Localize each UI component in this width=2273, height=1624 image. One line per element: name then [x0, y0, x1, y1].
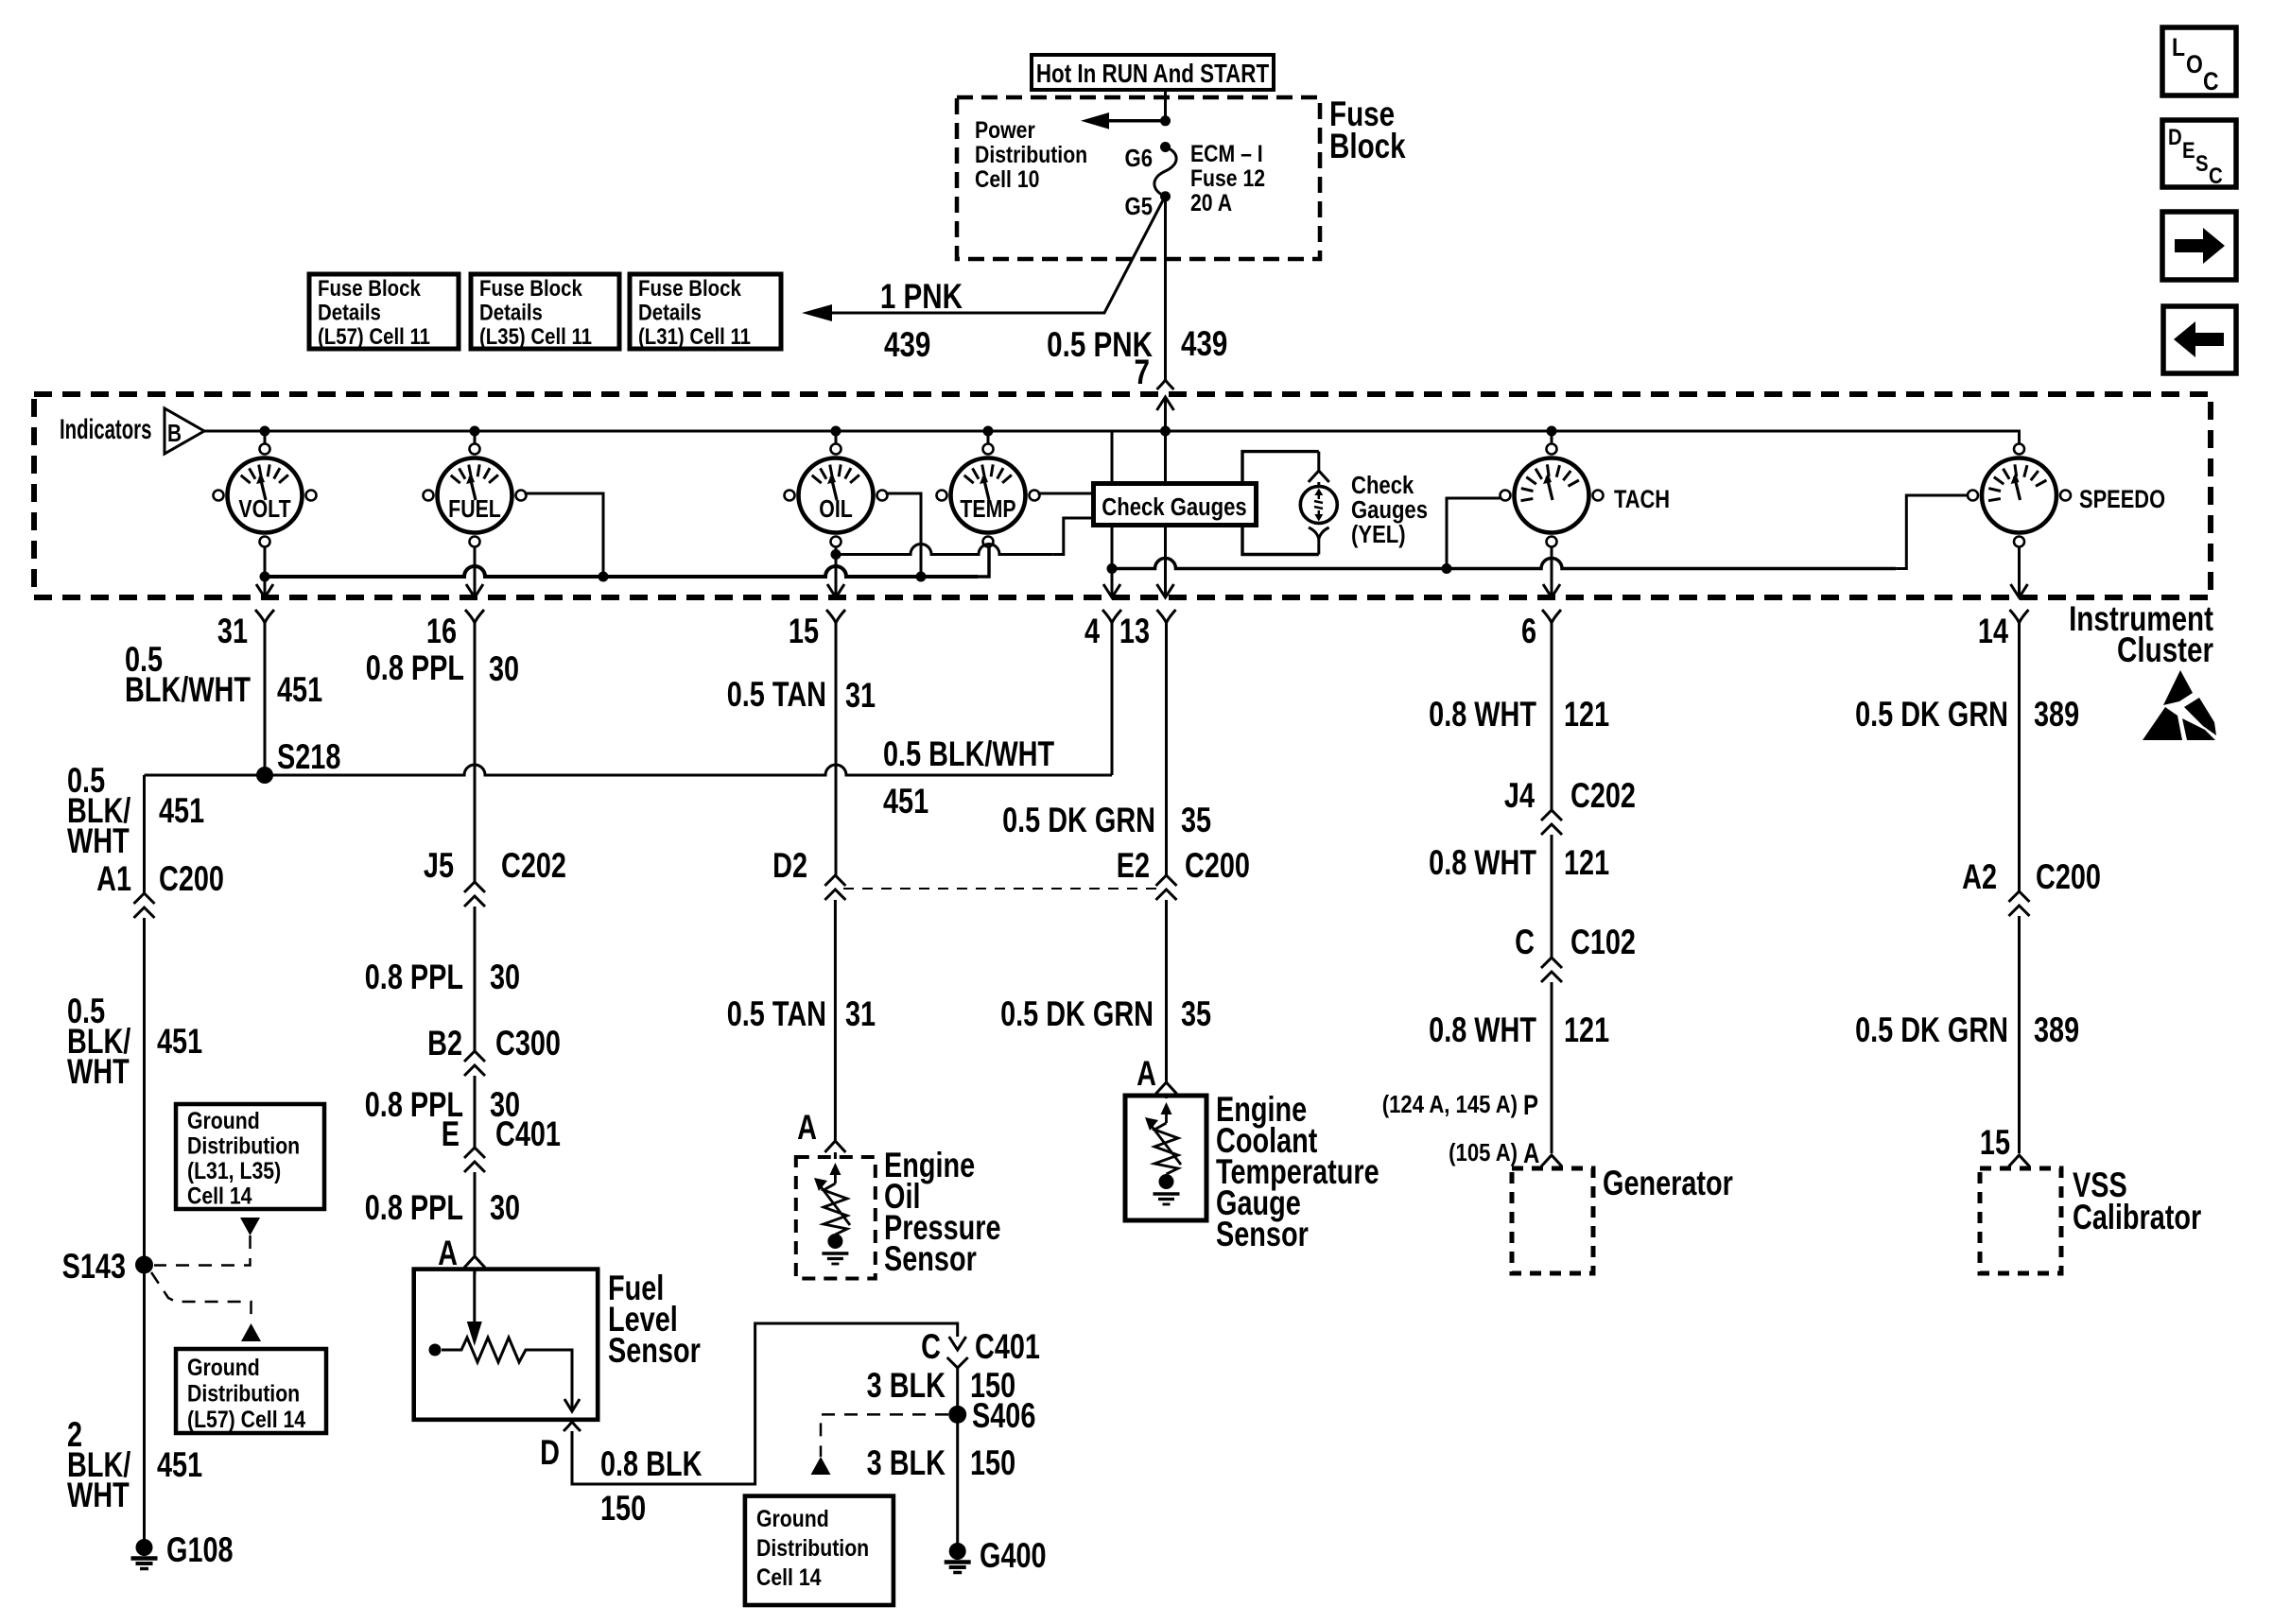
connector J5 C202 — [464, 882, 485, 907]
ect sensor symbol — [1165, 1112, 1168, 1123]
junction dot 439 feed — [1160, 426, 1171, 437]
svg-text:16: 16 — [426, 613, 457, 651]
svg-text:B2: B2 — [427, 1025, 462, 1063]
svg-text:451: 451 — [159, 792, 204, 831]
cluster top feed bus — [204, 431, 2020, 443]
svg-text:S406: S406 — [972, 1397, 1035, 1436]
gauge SPEEDO — [1982, 458, 2056, 533]
svg-text:C300: C300 — [495, 1025, 561, 1063]
junction dot wire4 bus — [1107, 563, 1118, 574]
svg-text:31: 31 — [845, 677, 876, 716]
svg-text:D: D — [2168, 124, 2182, 149]
connector A2 C200 — [2009, 891, 2030, 916]
svg-text:Check Gauges: Check Gauges — [1102, 493, 1246, 521]
svg-text:G6: G6 — [1125, 145, 1153, 172]
fuse block details (L57) box — [309, 274, 459, 349]
svg-text:451: 451 — [157, 1023, 202, 1062]
connector C C102 — [1541, 958, 1562, 982]
svg-text:0.5 BLK/WHT: 0.5 BLK/WHT — [883, 735, 1054, 774]
svg-text:C200: C200 — [2036, 858, 2101, 897]
svg-text:E: E — [2182, 137, 2195, 163]
S218 line 0.5 BLK/WHT 451 — [145, 765, 1113, 775]
svg-text:A: A — [1523, 1136, 1539, 1168]
ground distribution (L31,L35) box — [176, 1104, 324, 1209]
svg-text:A2: A2 — [1962, 858, 1997, 897]
svg-text:B: B — [167, 420, 182, 447]
splice S218 dot — [256, 767, 273, 784]
wire into oil sensor box — [834, 1152, 837, 1159]
svg-text:Distribution: Distribution — [187, 1380, 300, 1407]
fuse element ECM-I fuse 12 20A — [1154, 147, 1176, 197]
instrument cluster dashed box — [34, 394, 2211, 597]
svg-text:Fuse Block: Fuse Block — [638, 275, 741, 301]
connector A ect sensor — [1156, 1082, 1177, 1094]
terminal G5 dot — [1160, 191, 1171, 201]
svg-text:14: 14 — [1978, 613, 2009, 651]
svg-text:OIL: OIL — [819, 495, 853, 524]
wire volt bottom — [264, 546, 267, 577]
gauge OIL — [799, 458, 874, 533]
right bus — [1112, 559, 1896, 569]
svg-text:389: 389 — [2034, 696, 2079, 734]
svg-text:WHT: WHT — [67, 822, 130, 861]
lamp connector top — [1309, 471, 1329, 482]
svg-text:0.8 PPL: 0.8 PPL — [366, 649, 464, 688]
svg-text:451: 451 — [277, 671, 322, 710]
svg-text:15: 15 — [789, 613, 819, 651]
svg-text:389: 389 — [2034, 1011, 2079, 1050]
wire volt exit — [264, 577, 267, 596]
svg-text:TEMP: TEMP — [960, 495, 1015, 524]
svg-text:30: 30 — [489, 650, 519, 689]
svg-text:121: 121 — [1564, 1011, 1609, 1050]
svg-text:C401: C401 — [495, 1115, 561, 1154]
connector pin 14 below cluster — [2010, 610, 2029, 623]
svg-text:Power: Power — [975, 116, 1035, 143]
wire 3 BLK 150 lower — [956, 1414, 959, 1547]
svg-text:C: C — [2209, 163, 2223, 188]
wire oil right drop — [886, 493, 922, 577]
junction dot fuel top — [470, 426, 480, 437]
svg-text:35: 35 — [1181, 802, 1211, 840]
svg-text:Cell 10: Cell 10 — [975, 165, 1039, 192]
arrow from ground dist box down — [240, 1218, 260, 1235]
LOC icon box — [2162, 27, 2236, 95]
dashed connector line D2-E2 — [843, 888, 1157, 890]
svg-text:(L31) Cell 11: (L31) Cell 11 — [638, 323, 751, 349]
svg-text:Generator: Generator — [1603, 1165, 1733, 1203]
svg-text:31: 31 — [217, 613, 248, 651]
dashed link S143 to ground dist (L57) — [151, 1272, 252, 1323]
ground G108 — [136, 1539, 153, 1556]
svg-text:Indicators: Indicators — [60, 414, 151, 445]
connector pin 13 below cluster — [1157, 610, 1176, 623]
svg-text:BLK/WHT: BLK/WHT — [125, 671, 251, 710]
ESD sensitivity symbol — [2163, 670, 2193, 705]
svg-text:(L31, L35): (L31, L35) — [187, 1157, 281, 1183]
svg-text:Fuse Block: Fuse Block — [318, 275, 421, 301]
svg-text:0.8 WHT: 0.8 WHT — [1429, 696, 1536, 734]
svg-text:C200: C200 — [1185, 847, 1250, 886]
svg-text:G5: G5 — [1125, 193, 1153, 220]
gauge VOLT — [228, 458, 303, 533]
svg-text:C102: C102 — [1570, 924, 1636, 962]
svg-text:A1: A1 — [96, 860, 131, 899]
fuse block dashed box — [957, 97, 1320, 259]
svg-text:121: 121 — [1564, 844, 1609, 883]
wire 3 BLK 150 upper — [956, 1368, 959, 1414]
connector vss top — [2009, 1155, 2030, 1166]
wire 6 tach segment 1 — [1551, 635, 1553, 810]
connector pin 15 below cluster — [826, 610, 845, 623]
svg-text:Sensor: Sensor — [1216, 1216, 1309, 1254]
arrow up 439 into bus — [1157, 397, 1174, 410]
wire into fuel sensor box — [474, 1268, 477, 1274]
junction dot temp top — [983, 426, 994, 437]
svg-text:Block: Block — [1329, 128, 1406, 166]
svg-text:Ground: Ground — [756, 1505, 829, 1531]
svg-text:13: 13 — [1119, 613, 1150, 651]
svg-text:E2: E2 — [1117, 847, 1150, 886]
connector J4 C202 — [1541, 810, 1562, 835]
wire 0.5 PNK 439 vertical — [1164, 197, 1167, 380]
wire tach left elbow — [1447, 498, 1501, 569]
svg-text:C202: C202 — [1570, 777, 1636, 816]
ground distribution cell 14 box — [745, 1496, 894, 1605]
fuse block details (L35) box — [471, 274, 619, 349]
svg-text:P: P — [1523, 1088, 1538, 1120]
svg-text:WHT: WHT — [67, 1477, 130, 1515]
connector D2 C200 — [824, 875, 845, 900]
connector A1 C200 — [134, 893, 155, 918]
svg-text:0.8 PPL: 0.8 PPL — [365, 1189, 463, 1228]
svg-text:(124 A, 145 A): (124 A, 145 A) — [1382, 1091, 1518, 1118]
svg-text:Sensor: Sensor — [884, 1240, 977, 1279]
fuel sensor potentiometer — [442, 1338, 572, 1397]
svg-text:VOLT: VOLT — [238, 495, 291, 524]
wire 13 ect segment 1 — [1165, 635, 1168, 875]
svg-text:30: 30 — [490, 959, 520, 997]
svg-text:TACH: TACH — [1614, 486, 1670, 514]
left arrow icon box — [2163, 306, 2236, 373]
svg-text:E: E — [442, 1115, 460, 1154]
svg-text:C202: C202 — [501, 847, 566, 886]
svg-text:S143: S143 — [62, 1248, 126, 1287]
svg-text:FUEL: FUEL — [448, 495, 501, 524]
wire 451 to S143 — [143, 918, 146, 1265]
svg-text:Details: Details — [638, 300, 702, 325]
indicator bus triangle B — [165, 408, 204, 454]
svg-text:L: L — [2172, 33, 2185, 61]
svg-text:439: 439 — [1181, 325, 1227, 364]
svg-text:C: C — [921, 1328, 941, 1367]
dashed link S406 to ground dist cell 14 — [821, 1414, 948, 1457]
svg-text:D: D — [540, 1434, 560, 1473]
svg-text:0.5 DK GRN: 0.5 DK GRN — [1000, 995, 1154, 1034]
wire 14 speedo segment 1 — [2018, 635, 2021, 891]
arrow to power distribution cell 10 — [1098, 119, 1166, 123]
fuel level sensor box — [414, 1270, 599, 1420]
connector C C401 (down) — [947, 1337, 968, 1368]
connector Y at cluster entry — [1157, 380, 1174, 389]
wire temp to check gauges box — [1038, 492, 1094, 495]
lamp connector bottom — [1309, 527, 1329, 539]
left bus — [265, 566, 978, 577]
ground G400 — [949, 1543, 966, 1560]
svg-text:31: 31 — [845, 995, 876, 1034]
junction dot tach top — [1547, 426, 1557, 437]
engine oil pressure sensor dashed box — [796, 1157, 876, 1279]
svg-text:Fuse 12: Fuse 12 — [1190, 164, 1265, 191]
svg-text:4: 4 — [1084, 613, 1101, 651]
wire fuel right to bus — [525, 493, 604, 577]
svg-text:35: 35 — [1181, 995, 1211, 1034]
svg-text:J4: J4 — [1504, 777, 1536, 816]
svg-text:121: 121 — [1564, 696, 1609, 734]
wire 15 oil segment 1 — [835, 635, 838, 875]
gauge FUEL — [438, 458, 512, 533]
wire 13 through box — [1164, 431, 1167, 596]
svg-text:Details: Details — [318, 300, 381, 325]
svg-text:D2: D2 — [772, 847, 807, 886]
svg-text:20 A: 20 A — [1190, 189, 1232, 216]
svg-text:C: C — [2203, 67, 2219, 95]
fuel sensor wiper arrow — [473, 1270, 476, 1322]
wire into ect sensor box — [1165, 1094, 1168, 1098]
wire 16 fuel segment 4 — [474, 1172, 477, 1256]
svg-text:30: 30 — [490, 1189, 520, 1228]
svg-text:Cell 14: Cell 14 — [756, 1564, 822, 1590]
wire oil exit — [835, 555, 838, 597]
connector D below fuel sensor — [564, 1422, 581, 1431]
svg-text:Distribution: Distribution — [975, 141, 1087, 167]
connector generator top — [1541, 1155, 1562, 1166]
terminal G6 dot — [1160, 142, 1171, 152]
connector pin 6 below cluster — [1542, 610, 1561, 623]
svg-text:439: 439 — [884, 326, 930, 365]
fuse block details (L31) box — [630, 274, 781, 349]
wire from hot feed into fuse block — [1164, 90, 1167, 121]
svg-text:0.5 TAN: 0.5 TAN — [727, 995, 826, 1034]
svg-text:Details: Details — [479, 300, 543, 325]
svg-text:3 BLK: 3 BLK — [867, 1367, 946, 1406]
svg-text:(YEL): (YEL) — [1351, 521, 1406, 548]
wire 16 fuel segment 3 — [474, 1076, 477, 1148]
svg-text:Sensor: Sensor — [608, 1332, 701, 1371]
svg-text:0.5 DK GRN: 0.5 DK GRN — [1002, 802, 1155, 840]
svg-text:0.5 TAN: 0.5 TAN — [727, 676, 826, 715]
DESC icon box — [2162, 120, 2236, 187]
junction dot fuel-right bus — [599, 572, 609, 582]
svg-text:1 PNK: 1 PNK — [880, 278, 963, 317]
svg-text:3 BLK: 3 BLK — [867, 1444, 946, 1483]
svg-text:SPEEDO: SPEEDO — [2079, 486, 2165, 514]
connector A fuel sensor — [464, 1256, 485, 1268]
svg-text:(L57) Cell 14: (L57) Cell 14 — [187, 1406, 305, 1432]
svg-text:O: O — [2186, 50, 2203, 78]
svg-text:0.8 WHT: 0.8 WHT — [1429, 1011, 1536, 1050]
svg-text:C401: C401 — [975, 1328, 1040, 1367]
junction dot oil-right bus — [916, 572, 927, 582]
svg-text:15: 15 — [1980, 1124, 2010, 1163]
dashed link S143 to ground dist (L31,L35) — [154, 1235, 251, 1266]
svg-text:(L35) Cell 11: (L35) Cell 11 — [479, 323, 592, 349]
wire 14 speedo segment 2 — [2018, 916, 2021, 1153]
svg-text:G400: G400 — [980, 1537, 1047, 1576]
wire 6 tach segment 3 — [1551, 982, 1553, 1153]
wire tach exit — [1551, 546, 1553, 596]
svg-text:G108: G108 — [166, 1531, 234, 1570]
svg-text:Calibrator: Calibrator — [2073, 1199, 2201, 1237]
wire 2 BLK/WHT to G108 — [143, 1265, 146, 1547]
gauge TEMP — [951, 458, 1026, 533]
junction dot tach elbow — [1442, 563, 1452, 574]
svg-text:Hot In RUN And START: Hot In RUN And START — [1036, 60, 1270, 89]
connector pin 4 below cluster — [1102, 610, 1121, 623]
wire 31 volt to S218 — [264, 635, 267, 775]
gauge TACH — [1515, 458, 1589, 533]
oil check gauges line — [836, 544, 1053, 555]
svg-text:(105 A): (105 A) — [1449, 1139, 1518, 1166]
wire speedo exit — [2018, 546, 2021, 596]
svg-text:Ground: Ground — [187, 1354, 260, 1380]
svg-text:Cell 14: Cell 14 — [187, 1183, 252, 1209]
svg-text:Ground: Ground — [187, 1107, 260, 1133]
svg-text:150: 150 — [600, 1490, 646, 1529]
svg-text:6: 6 — [1521, 613, 1536, 651]
connector B2 C300 — [464, 1051, 485, 1076]
wire 4 exit — [1111, 569, 1114, 597]
wire 15 oil segment 2 — [834, 900, 837, 1141]
check gauges lamp bracket — [1242, 452, 1319, 555]
vss calibrator dashed box — [1980, 1168, 2061, 1273]
wire 13 ect segment 2 — [1165, 900, 1168, 1082]
svg-text:0.8 WHT: 0.8 WHT — [1429, 844, 1536, 883]
connector A oil sensor — [824, 1141, 845, 1152]
arrow to ground dist (L57) box — [241, 1323, 261, 1341]
svg-text:Cluster: Cluster — [2117, 631, 2213, 670]
svg-text:Fuse Block: Fuse Block — [479, 275, 582, 301]
svg-text:C200: C200 — [159, 860, 224, 899]
wire 6 tach segment 2 — [1551, 835, 1553, 958]
svg-text:Distribution: Distribution — [187, 1132, 300, 1159]
junction dot oil top — [831, 426, 842, 437]
connector E2 C200 — [1156, 875, 1177, 900]
connector E C401 — [464, 1148, 485, 1172]
svg-text:0.8 BLK: 0.8 BLK — [600, 1445, 702, 1484]
connector pin 16 below cluster — [465, 610, 484, 623]
wire 16 fuel segment 1 — [474, 635, 477, 882]
wire 13 exit arrow — [1157, 584, 1174, 597]
hot in run and start label box — [1032, 55, 1274, 90]
svg-text:0.5 DK GRN: 0.5 DK GRN — [1855, 1011, 2008, 1050]
junction dot volt top — [260, 426, 270, 437]
check gauges box — [1094, 484, 1257, 526]
engine coolant temperature sensor box — [1125, 1096, 1206, 1220]
splice S143 dot — [135, 1256, 153, 1274]
wire 1 PNK 439 with arrow to fuse block details — [830, 199, 1164, 313]
svg-text:A: A — [1136, 1055, 1156, 1094]
wire 0.8 BLK 150 from D to C401 — [572, 1323, 958, 1484]
connector pin 31 below cluster — [255, 610, 274, 623]
svg-text:C: C — [1515, 924, 1535, 962]
generator dashed box — [1512, 1168, 1593, 1273]
svg-text:ECM – I: ECM – I — [1190, 140, 1263, 166]
junction dot volt bus — [260, 572, 270, 582]
svg-text:451: 451 — [883, 783, 928, 821]
svg-text:S: S — [2195, 150, 2209, 176]
check gauges indicator lamp (YEL) — [1300, 487, 1337, 524]
svg-text:A: A — [797, 1109, 817, 1148]
ground distribution (L57) box — [176, 1349, 326, 1433]
svg-text:451: 451 — [157, 1446, 202, 1485]
svg-text:150: 150 — [970, 1444, 1015, 1483]
wire 16 fuel segment 2 — [474, 907, 477, 1051]
arrow to ground dist cell 14 box — [811, 1457, 831, 1475]
svg-text:(L57) Cell 11: (L57) Cell 11 — [318, 323, 430, 349]
svg-text:Gauges: Gauges — [1351, 496, 1428, 524]
wire oil bottom to sensor line — [835, 546, 838, 555]
wire 4 through box — [1111, 431, 1114, 569]
junction at power distribution tap — [1160, 115, 1171, 126]
splice S406 dot — [948, 1406, 966, 1424]
svg-text:0.5 DK GRN: 0.5 DK GRN — [1855, 696, 2008, 734]
svg-text:WHT: WHT — [67, 1053, 130, 1092]
junction dot oil check line — [831, 549, 842, 560]
svg-text:Distribution: Distribution — [756, 1534, 869, 1561]
svg-text:Check: Check — [1351, 472, 1414, 499]
svg-text:0.8 PPL: 0.8 PPL — [365, 959, 463, 997]
wire fuel exit — [474, 546, 477, 596]
svg-text:J5: J5 — [424, 847, 454, 886]
right arrow icon box — [2162, 212, 2236, 280]
svg-text:S218: S218 — [277, 738, 340, 777]
svg-text:7: 7 — [1135, 354, 1150, 392]
oil sensor symbol — [834, 1172, 837, 1183]
